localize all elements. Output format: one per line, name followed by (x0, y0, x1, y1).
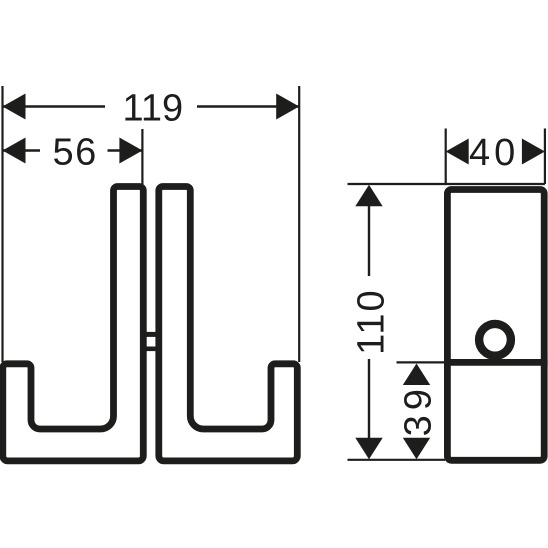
svg-text:39: 39 (398, 384, 440, 436)
reference line for 39 top (397, 361, 446, 363)
extension line right of 56 (141, 129, 143, 185)
front view: bridge bar lower between hooks (144, 347, 160, 352)
arrowhead 110 bottom (355, 438, 382, 460)
extension line right of 40 (544, 129, 546, 185)
arrowhead 110 top (355, 185, 382, 207)
arrowhead 39 bottom (403, 438, 430, 460)
extension line right of 119 (298, 86, 300, 362)
dimension line 119 (3, 105, 106, 107)
front view: left hook outline (3, 187, 144, 461)
side view: circle detail (479, 324, 511, 356)
svg-text:40: 40 (469, 132, 519, 174)
arrowhead 119 right (276, 94, 299, 120)
extension line left of 40 (445, 129, 447, 185)
front view: right hook outline (159, 187, 297, 461)
side view: divider line (444, 359, 548, 366)
arrowhead 56 right (119, 138, 142, 164)
svg-text:119: 119 (123, 88, 184, 130)
svg-text:110: 110 (351, 288, 393, 355)
svg-text:56: 56 (52, 132, 97, 174)
dimension line 56 (3, 149, 41, 151)
arrowhead 39 top (403, 364, 430, 386)
arrowhead 56 left (3, 138, 26, 164)
arrowhead 40 right (522, 139, 545, 165)
reference line bottom of 110/39 (348, 459, 446, 461)
front view: bridge bar upper between hooks (144, 332, 160, 337)
arrowhead 40 left (446, 139, 469, 165)
side view: body rectangle (447, 190, 544, 461)
dimension line 110 (368, 206, 370, 276)
reference line top of 110 (348, 183, 545, 185)
arrowhead 119 left (3, 94, 26, 120)
extension line left of 119/56 (1, 86, 3, 362)
